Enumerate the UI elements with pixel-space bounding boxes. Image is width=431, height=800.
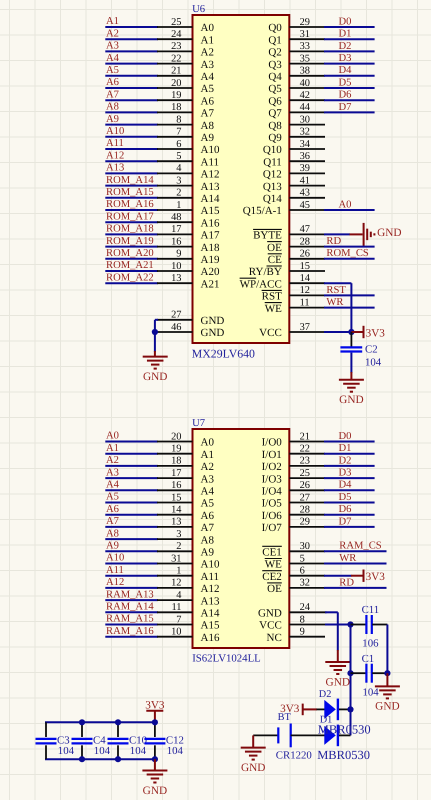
svg-text:GND: GND bbox=[326, 676, 350, 688]
svg-text:17: 17 bbox=[171, 468, 181, 479]
svg-text:I/O3: I/O3 bbox=[262, 473, 283, 485]
svg-text:18: 18 bbox=[171, 456, 181, 467]
svg-text:D5: D5 bbox=[339, 77, 352, 88]
svg-text:A3: A3 bbox=[201, 59, 215, 71]
svg-text:WR: WR bbox=[339, 553, 357, 564]
svg-text:104: 104 bbox=[94, 745, 111, 757]
U6 pin 30 wire bbox=[289, 114, 325, 125]
svg-text:GND: GND bbox=[258, 608, 282, 620]
svg-text:C2: C2 bbox=[365, 343, 378, 355]
svg-text:Q9: Q9 bbox=[268, 132, 282, 144]
svg-text:I/O1: I/O1 bbox=[262, 449, 282, 461]
U7 pin 24 GND wire to ground bbox=[289, 602, 338, 662]
svg-text:D1: D1 bbox=[339, 443, 352, 454]
U6 pin 25 / net A1 wire+label bbox=[105, 16, 192, 28]
power 3V3 (U7 CE2) bbox=[351, 570, 385, 584]
svg-text:5: 5 bbox=[176, 151, 181, 162]
U6 GND pin 27 wire bbox=[157, 310, 193, 321]
svg-text:A10: A10 bbox=[201, 144, 220, 156]
svg-text:D0: D0 bbox=[339, 16, 352, 27]
svg-text:Q14: Q14 bbox=[263, 193, 282, 205]
ground (U6 GND pins) bbox=[143, 357, 168, 383]
svg-text:16: 16 bbox=[171, 236, 181, 247]
junction C1 left bbox=[347, 670, 353, 676]
svg-text:25: 25 bbox=[300, 468, 310, 479]
svg-text:28: 28 bbox=[300, 505, 310, 516]
U6 pin 31 / net D1 wire+label bbox=[289, 29, 374, 40]
wire U6 VCC to C2 bbox=[350, 332, 352, 347]
svg-text:A10: A10 bbox=[201, 559, 220, 571]
capacitor C2 bbox=[340, 343, 381, 368]
svg-text:ROM_A14: ROM_A14 bbox=[106, 175, 154, 186]
svg-text:MX29LV640: MX29LV640 bbox=[192, 347, 255, 361]
svg-text:WR: WR bbox=[326, 297, 344, 308]
svg-text:A3: A3 bbox=[106, 41, 119, 52]
U6 pin 39 wire bbox=[289, 163, 325, 174]
U6 pin 12 / net RST wire+label bbox=[289, 285, 374, 296]
svg-text:ROM_A17: ROM_A17 bbox=[106, 211, 154, 222]
U6 pin 35 / net D3 wire+label bbox=[289, 53, 374, 64]
svg-text:A6: A6 bbox=[106, 504, 119, 515]
U6 pin 9 / net ROM_A20 wire+label bbox=[105, 248, 192, 260]
svg-text:4: 4 bbox=[176, 163, 182, 174]
U6 pin 19 / net A7 wire+label bbox=[105, 89, 192, 101]
svg-text:14: 14 bbox=[300, 273, 311, 284]
svg-text:A0: A0 bbox=[339, 199, 352, 210]
U6 pin 11 / net WR wire+label bbox=[289, 297, 374, 308]
svg-text:CR1220: CR1220 bbox=[276, 749, 312, 761]
svg-text:WE: WE bbox=[265, 559, 282, 571]
svg-text:A7: A7 bbox=[201, 108, 215, 120]
U6 pin 48 / net ROM_A17 wire+label bbox=[105, 211, 192, 223]
svg-text:38: 38 bbox=[300, 66, 310, 77]
U7 pin 5 / net WR wire+label bbox=[289, 553, 386, 564]
svg-text:3: 3 bbox=[176, 175, 181, 186]
svg-text:CE1: CE1 bbox=[262, 547, 282, 559]
svg-text:ROM_A22: ROM_A22 bbox=[106, 272, 154, 283]
svg-text:32: 32 bbox=[300, 127, 310, 138]
U6 pin 2 / net ROM_A15 wire+label bbox=[105, 187, 192, 199]
svg-text:A7: A7 bbox=[106, 89, 119, 100]
svg-text:15: 15 bbox=[300, 261, 310, 272]
svg-text:10: 10 bbox=[171, 261, 181, 272]
U6 pin 33 / net D2 wire+label bbox=[289, 41, 374, 52]
svg-text:47: 47 bbox=[300, 224, 310, 235]
U6 pin 45 / net A0 wire+label bbox=[289, 199, 374, 210]
svg-text:A6: A6 bbox=[106, 77, 119, 88]
junction D2 cathode bbox=[347, 706, 353, 712]
svg-text:A11: A11 bbox=[106, 565, 124, 576]
U6 pin 1 / net ROM_A16 wire+label bbox=[105, 199, 192, 211]
svg-text:GND: GND bbox=[201, 315, 225, 327]
svg-text:6: 6 bbox=[176, 139, 181, 150]
svg-text:27: 27 bbox=[171, 310, 181, 321]
svg-text:ROM_A15: ROM_A15 bbox=[106, 187, 154, 198]
svg-text:A9: A9 bbox=[106, 541, 119, 552]
svg-text:C11: C11 bbox=[362, 604, 380, 616]
svg-text:20: 20 bbox=[171, 431, 181, 442]
svg-text:3V3: 3V3 bbox=[145, 699, 165, 711]
svg-text:A0: A0 bbox=[201, 437, 215, 449]
svg-text:48: 48 bbox=[171, 212, 181, 223]
svg-text:D3: D3 bbox=[339, 53, 352, 64]
svg-text:1: 1 bbox=[176, 200, 181, 211]
U6 pin 40 / net D5 wire+label bbox=[289, 77, 374, 88]
svg-text:42: 42 bbox=[300, 90, 310, 101]
wire battery to ground bbox=[252, 735, 254, 747]
svg-text:Q13: Q13 bbox=[263, 181, 282, 193]
svg-text:A11: A11 bbox=[201, 156, 220, 168]
svg-text:CE2: CE2 bbox=[262, 571, 282, 583]
wire VCC vertical bus (U7 VCC to C1/D2/D1) bbox=[350, 625, 352, 736]
svg-text:45: 45 bbox=[300, 200, 310, 211]
svg-text:RST: RST bbox=[326, 285, 346, 296]
svg-text:VCC: VCC bbox=[259, 327, 282, 339]
svg-text:6: 6 bbox=[300, 566, 305, 577]
svg-text:37: 37 bbox=[300, 322, 310, 333]
svg-text:A8: A8 bbox=[106, 102, 119, 113]
svg-text:MBR0530: MBR0530 bbox=[318, 723, 371, 737]
svg-text:17: 17 bbox=[171, 224, 181, 235]
svg-text:RAM_A15: RAM_A15 bbox=[106, 614, 154, 625]
diode D1 designator and value labels bbox=[317, 715, 370, 762]
svg-text:30: 30 bbox=[300, 114, 310, 125]
svg-text:U7: U7 bbox=[192, 418, 205, 429]
U6 pin 5 / net A12 wire+label bbox=[105, 150, 192, 162]
U7 pin 20 / net A0 wire+label bbox=[105, 431, 192, 443]
svg-text:9: 9 bbox=[176, 249, 181, 260]
U7 pin 30 / net RAM_CS wire+label bbox=[289, 541, 386, 552]
svg-text:27: 27 bbox=[300, 492, 310, 503]
wire 3V3 top rail bbox=[45, 721, 156, 723]
wire C1 right to ground bbox=[386, 673, 388, 686]
svg-text:Q7: Q7 bbox=[268, 108, 282, 120]
svg-text:A1: A1 bbox=[201, 449, 214, 461]
svg-text:31: 31 bbox=[300, 29, 310, 40]
svg-text:D5: D5 bbox=[339, 492, 352, 503]
U7 pin 12 / net A12 wire+label bbox=[105, 577, 192, 589]
svg-text:RD: RD bbox=[326, 236, 341, 247]
svg-text:NC: NC bbox=[267, 632, 282, 644]
svg-text:ROM_CS: ROM_CS bbox=[326, 248, 368, 259]
svg-text:104: 104 bbox=[130, 745, 147, 757]
svg-text:16: 16 bbox=[171, 480, 181, 491]
power 3V3 (U6 VCC) bbox=[351, 326, 385, 340]
svg-text:RY/BY: RY/BY bbox=[249, 266, 282, 278]
svg-text:A14: A14 bbox=[201, 608, 220, 620]
junction bottom rail C10 bbox=[115, 756, 121, 762]
svg-text:A9: A9 bbox=[201, 132, 215, 144]
U6 pin 13 / net ROM_A22 wire+label bbox=[105, 272, 192, 284]
svg-text:Q4: Q4 bbox=[268, 71, 282, 83]
ground (battery) bbox=[241, 748, 266, 774]
capacitor C3 bbox=[36, 722, 75, 759]
svg-text:21: 21 bbox=[171, 66, 181, 77]
svg-text:12: 12 bbox=[300, 285, 310, 296]
svg-text:25: 25 bbox=[171, 17, 181, 28]
svg-text:OE: OE bbox=[267, 583, 282, 595]
svg-text:D1: D1 bbox=[339, 29, 352, 40]
svg-text:A13: A13 bbox=[201, 181, 220, 193]
svg-text:RAM_CS: RAM_CS bbox=[339, 541, 381, 552]
svg-text:2: 2 bbox=[176, 541, 181, 552]
U7 pin 1 / net A11 wire+label bbox=[105, 565, 192, 577]
U6 pin 18 / net A8 wire+label bbox=[105, 102, 192, 114]
svg-text:A11: A11 bbox=[106, 138, 124, 149]
svg-text:24: 24 bbox=[300, 602, 311, 613]
U6 pin 10 / net ROM_A21 wire+label bbox=[105, 260, 192, 272]
svg-text:Q8: Q8 bbox=[268, 120, 282, 132]
wire C2 to ground bbox=[350, 353, 352, 380]
svg-text:26: 26 bbox=[300, 249, 310, 260]
U7 pin 6 CE2 wire to 3V3 bbox=[289, 566, 351, 577]
svg-text:18: 18 bbox=[171, 102, 181, 113]
svg-text:A2: A2 bbox=[106, 455, 119, 466]
svg-text:13: 13 bbox=[171, 517, 181, 528]
svg-text:A16: A16 bbox=[201, 217, 220, 229]
IC U7 IS62LV1024LL body bbox=[192, 418, 289, 665]
svg-text:GND: GND bbox=[375, 701, 399, 713]
ground (cap bank) bbox=[142, 771, 167, 797]
svg-text:A1: A1 bbox=[106, 16, 119, 27]
svg-text:RAM_A14: RAM_A14 bbox=[106, 602, 154, 613]
svg-text:A12: A12 bbox=[106, 577, 124, 588]
U6 pin 4 / net A13 wire+label bbox=[105, 163, 192, 175]
svg-text:I/O2: I/O2 bbox=[262, 461, 282, 473]
svg-text:A8: A8 bbox=[201, 534, 215, 546]
svg-text:A0: A0 bbox=[201, 22, 215, 34]
svg-text:A8: A8 bbox=[201, 120, 215, 132]
svg-text:A5: A5 bbox=[106, 65, 119, 76]
svg-text:ROM_A20: ROM_A20 bbox=[106, 248, 154, 259]
U6 pin 29 / net D0 wire+label bbox=[289, 16, 374, 27]
svg-text:29: 29 bbox=[300, 17, 310, 28]
svg-text:MBR0530: MBR0530 bbox=[317, 748, 370, 762]
svg-text:D2: D2 bbox=[319, 689, 332, 700]
svg-text:A21: A21 bbox=[201, 278, 220, 290]
svg-text:A4: A4 bbox=[106, 53, 120, 64]
IC U6 MX29LV640 body bbox=[192, 4, 289, 361]
svg-text:9: 9 bbox=[300, 627, 305, 638]
svg-text:VCC: VCC bbox=[259, 620, 282, 632]
U7 pin 25 / net D3 wire+label bbox=[289, 468, 374, 479]
svg-text:I/O6: I/O6 bbox=[262, 510, 283, 522]
svg-text:40: 40 bbox=[300, 78, 310, 89]
U6 pin 44 / net D7 wire+label bbox=[289, 102, 374, 113]
U7 pin 26 / net D4 wire+label bbox=[289, 480, 374, 491]
svg-text:A1: A1 bbox=[106, 443, 119, 454]
power 3V3 (D2 anode) bbox=[280, 703, 317, 715]
svg-text:A11: A11 bbox=[201, 571, 220, 583]
capacitor C1 bbox=[351, 653, 388, 699]
U6 pin 34 wire bbox=[289, 139, 325, 150]
svg-text:12: 12 bbox=[171, 578, 181, 589]
svg-text:Q0: Q0 bbox=[268, 22, 282, 34]
svg-text:A10: A10 bbox=[106, 553, 124, 564]
U6 pin 47 BYTE wire bbox=[289, 224, 362, 235]
U7 pin 28 / net D6 wire+label bbox=[289, 504, 374, 515]
svg-text:19: 19 bbox=[171, 444, 181, 455]
junction U6 VCC / 3V3 bbox=[348, 329, 354, 335]
svg-text:36: 36 bbox=[300, 151, 310, 162]
U7 pin 4 / net RAM_A13 wire+label bbox=[105, 589, 192, 601]
svg-text:24: 24 bbox=[171, 29, 182, 40]
ground (BYTE pin) bbox=[364, 223, 402, 246]
svg-text:Q10: Q10 bbox=[263, 144, 282, 156]
svg-text:A5: A5 bbox=[106, 492, 119, 503]
svg-text:A6: A6 bbox=[201, 95, 215, 107]
U7 pin 10 / net RAM_A16 wire+label bbox=[105, 626, 192, 638]
svg-text:RAM_A16: RAM_A16 bbox=[106, 626, 154, 637]
U7 pin 32 / net RD wire+label bbox=[289, 577, 386, 588]
svg-text:46: 46 bbox=[171, 322, 181, 333]
svg-text:U6: U6 bbox=[192, 4, 205, 15]
svg-text:A15: A15 bbox=[201, 620, 220, 632]
svg-text:A3: A3 bbox=[201, 473, 215, 485]
svg-text:A7: A7 bbox=[106, 516, 119, 527]
U7 pin 27 / net D5 wire+label bbox=[289, 492, 374, 503]
svg-text:11: 11 bbox=[300, 297, 310, 308]
ground (C1) bbox=[375, 686, 400, 712]
ground (U7 GND) bbox=[325, 662, 350, 688]
svg-text:Q3: Q3 bbox=[268, 59, 282, 71]
U7 pin 14 / net A6 wire+label bbox=[105, 504, 192, 516]
U6 pin 38 / net D4 wire+label bbox=[289, 65, 374, 76]
U6 pin 37 VCC wire bbox=[289, 322, 351, 333]
svg-text:2: 2 bbox=[176, 188, 181, 199]
svg-text:22: 22 bbox=[300, 444, 310, 455]
U6 pin 21 / net A5 wire+label bbox=[105, 65, 192, 77]
svg-text:RST: RST bbox=[262, 291, 282, 303]
junction bottom rail C4 bbox=[79, 756, 85, 762]
svg-text:7: 7 bbox=[176, 614, 181, 625]
wire U6 GND pins to ground bbox=[155, 320, 158, 357]
U7 pin 13 / net A7 wire+label bbox=[105, 516, 192, 528]
svg-text:106: 106 bbox=[362, 638, 379, 650]
svg-text:BYTE: BYTE bbox=[253, 230, 282, 242]
svg-text:A3: A3 bbox=[106, 467, 119, 478]
U6 pin 36 wire bbox=[289, 151, 325, 162]
U6 pin 24 / net A2 wire+label bbox=[105, 28, 192, 40]
U6 pin 26 / net ROM_CS wire+label bbox=[289, 248, 374, 259]
junction bottom rail C12 bbox=[152, 756, 158, 762]
svg-text:Q11: Q11 bbox=[263, 156, 282, 168]
U7 pin 18 / net A2 wire+label bbox=[105, 455, 192, 467]
svg-text:ROM_A21: ROM_A21 bbox=[106, 260, 154, 271]
capacitor C4 bbox=[72, 722, 111, 759]
U6 pin 14 WP/ACC wire to 3V3 bbox=[289, 273, 351, 332]
svg-text:A17: A17 bbox=[201, 230, 220, 242]
svg-text:I/O5: I/O5 bbox=[262, 498, 283, 510]
svg-text:A0: A0 bbox=[106, 431, 119, 442]
svg-text:D4: D4 bbox=[339, 65, 353, 76]
U6 pin 23 / net A3 wire+label bbox=[105, 41, 192, 53]
svg-text:7: 7 bbox=[176, 127, 181, 138]
U7 pin 29 / net D7 wire+label bbox=[289, 516, 374, 527]
svg-text:A14: A14 bbox=[201, 193, 220, 205]
svg-text:A18: A18 bbox=[201, 242, 220, 254]
svg-text:4: 4 bbox=[176, 590, 182, 601]
svg-text:I/O7: I/O7 bbox=[262, 522, 283, 534]
svg-text:GND: GND bbox=[143, 371, 167, 383]
U6 pin 6 / net A11 wire+label bbox=[105, 138, 192, 150]
svg-text:Q1: Q1 bbox=[268, 34, 281, 46]
svg-text:D2: D2 bbox=[339, 455, 352, 466]
U6 pin 41 wire bbox=[289, 175, 325, 186]
wire ground bottom rail bbox=[45, 758, 156, 760]
wire bottom rail to ground bbox=[154, 759, 156, 770]
svg-text:A12: A12 bbox=[201, 169, 220, 181]
svg-text:1: 1 bbox=[176, 566, 181, 577]
U7 pin 8 VCC wire bbox=[289, 614, 350, 625]
svg-text:19: 19 bbox=[171, 90, 181, 101]
svg-text:GND: GND bbox=[201, 327, 225, 339]
svg-text:A20: A20 bbox=[201, 266, 220, 278]
svg-text:43: 43 bbox=[300, 188, 310, 199]
svg-text:10: 10 bbox=[171, 627, 181, 638]
svg-text:Q5: Q5 bbox=[268, 83, 282, 95]
svg-text:ROM_A16: ROM_A16 bbox=[106, 199, 154, 210]
svg-text:Q15/A-1: Q15/A-1 bbox=[243, 205, 282, 217]
svg-text:15: 15 bbox=[171, 492, 181, 503]
U6 pin 3 / net ROM_A14 wire+label bbox=[105, 175, 192, 187]
svg-text:44: 44 bbox=[300, 102, 311, 113]
U7 pin 3 / net A8 wire+label bbox=[105, 528, 192, 540]
svg-text:A5: A5 bbox=[201, 83, 215, 95]
svg-text:23: 23 bbox=[171, 41, 181, 52]
U7 pin 16 / net A4 wire+label bbox=[105, 480, 192, 492]
svg-text:3: 3 bbox=[176, 529, 181, 540]
ground (C2) bbox=[339, 380, 364, 406]
svg-text:A2: A2 bbox=[201, 461, 214, 473]
svg-text:22: 22 bbox=[171, 53, 181, 64]
svg-text:A4: A4 bbox=[201, 71, 215, 83]
diode D1 MBR0530 bbox=[291, 725, 351, 747]
svg-text:8: 8 bbox=[300, 614, 305, 625]
svg-text:GND: GND bbox=[339, 394, 363, 406]
U6 pin 20 / net A6 wire+label bbox=[105, 77, 192, 89]
U7 pin 22 / net D1 wire+label bbox=[289, 443, 374, 454]
svg-text:35: 35 bbox=[300, 53, 310, 64]
svg-text:A13: A13 bbox=[106, 163, 124, 174]
svg-text:A13: A13 bbox=[201, 595, 220, 607]
svg-text:14: 14 bbox=[171, 505, 182, 516]
svg-text:29: 29 bbox=[300, 517, 310, 528]
U6 pin 16 / net ROM_A19 wire+label bbox=[105, 236, 192, 248]
U7 pin 9 wire bbox=[289, 627, 325, 638]
battery BT CR1220 bbox=[253, 712, 312, 761]
svg-text:I/O4: I/O4 bbox=[262, 486, 283, 498]
svg-text:34: 34 bbox=[300, 139, 311, 150]
U6 pin 28 / net RD wire+label bbox=[289, 236, 374, 247]
svg-text:A12: A12 bbox=[106, 150, 124, 161]
U6 pin 7 / net A10 wire+label bbox=[105, 126, 192, 138]
svg-text:D4: D4 bbox=[339, 480, 353, 491]
svg-text:A7: A7 bbox=[201, 522, 215, 534]
junction top rail C10 bbox=[115, 719, 121, 725]
svg-text:32: 32 bbox=[300, 578, 310, 589]
svg-text:20: 20 bbox=[171, 78, 181, 89]
svg-text:A9: A9 bbox=[201, 547, 215, 559]
svg-text:A16: A16 bbox=[201, 632, 220, 644]
svg-text:BT: BT bbox=[278, 712, 292, 723]
U7 pin 23 / net D2 wire+label bbox=[289, 455, 374, 466]
svg-text:D7: D7 bbox=[339, 516, 352, 527]
U6 GND pin 46 wire bbox=[157, 322, 193, 333]
U6 pin 17 / net ROM_A18 wire+label bbox=[105, 224, 192, 236]
svg-text:A2: A2 bbox=[106, 28, 119, 39]
svg-text:Q2: Q2 bbox=[268, 47, 281, 59]
